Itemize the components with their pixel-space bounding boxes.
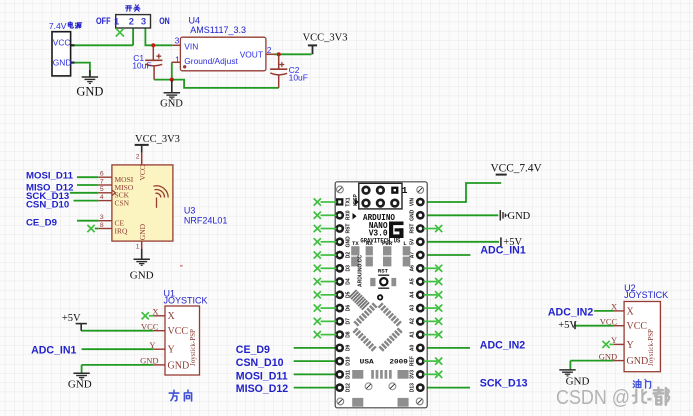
svg-text:X: X [611,302,617,312]
svg-text:ADC_IN1: ADC_IN1 [480,245,525,257]
svg-text:6: 6 [100,171,104,178]
svg-text:Y: Y [168,345,175,356]
svg-text:1: 1 [136,244,140,251]
svg-text:NRF24L01: NRF24L01 [184,215,228,225]
svg-text:D12: D12 [346,383,352,392]
svg-text:D11: D11 [346,370,352,379]
svg-text:2009: 2009 [389,358,408,365]
svg-text:A3: A3 [410,305,416,312]
svg-text:D4: D4 [346,278,352,285]
svg-text:A2: A2 [410,318,416,325]
svg-text:X: X [152,307,158,317]
svg-text:GND: GND [346,236,352,248]
svg-text:D2: D2 [346,252,352,259]
svg-text:ARDUINO.CC: ARDUINO.CC [358,255,364,287]
svg-text:D6: D6 [346,305,352,312]
svg-text:GND: GND [168,360,190,371]
svg-text:3V3: 3V3 [410,370,416,379]
svg-text:1: 1 [114,15,119,26]
svg-text:3: 3 [100,214,104,221]
svg-text:A7: A7 [410,252,416,259]
svg-text:GND: GND [160,98,183,109]
svg-text:D7: D7 [346,318,352,325]
svg-text:CE_D9: CE_D9 [26,218,57,229]
svg-text:VCC_7.4V: VCC_7.4V [491,163,543,175]
svg-text:A1: A1 [410,331,416,338]
svg-text:ADC_IN2: ADC_IN2 [548,306,593,318]
svg-text:5V: 5V [410,238,416,245]
svg-text:D3: D3 [346,265,352,272]
svg-text:VIN: VIN [184,42,198,52]
svg-text:GND: GND [53,58,72,68]
svg-text:MOSI_D11: MOSI_D11 [26,170,74,181]
svg-text:7: 7 [100,178,104,185]
svg-text:GND: GND [76,85,103,99]
svg-text:GND: GND [138,223,147,240]
svg-text:X: X [627,306,635,317]
svg-text:10uF: 10uF [132,60,151,70]
svg-text:2: 2 [136,154,140,161]
svg-text:D8: D8 [346,331,352,338]
svg-text:A0: A0 [410,344,416,351]
svg-text:SCK_D13: SCK_D13 [480,378,528,390]
svg-text:RX: RX [366,240,373,247]
svg-text:OFF: OFF [96,16,111,26]
svg-text:5: 5 [100,186,104,193]
svg-text:4: 4 [100,194,104,201]
svg-text:AMS1117_3.3: AMS1117_3.3 [190,25,246,35]
svg-text:VIN: VIN [410,197,416,206]
svg-text:PWR: PWR [382,240,393,247]
svg-text:VCC: VCC [53,37,71,47]
svg-text:GND: GND [68,379,92,391]
svg-text:RX0: RX0 [346,210,352,220]
svg-text:VCC: VCC [168,326,189,337]
svg-text:Ground/Adjust: Ground/Adjust [184,56,238,66]
svg-text:10uF: 10uF [289,72,308,82]
svg-text:JOYSTICK: JOYSTICK [164,295,208,305]
svg-text:GND: GND [599,351,617,361]
svg-text:7.4V: 7.4V [49,21,67,31]
svg-text:Y: Y [627,340,634,351]
svg-text:JOYSTICK: JOYSTICK [624,290,668,300]
svg-text:Joystick-PSP: Joystick-PSP [647,329,655,366]
svg-text:CSN_D10: CSN_D10 [236,357,284,369]
svg-text:VCC: VCC [627,321,648,332]
svg-text:USA: USA [360,358,374,365]
svg-text:VCC_3V3: VCC_3V3 [303,33,348,44]
svg-text:GND: GND [140,356,158,366]
svg-text:VCC: VCC [141,322,159,332]
svg-text:GND: GND [410,209,416,221]
svg-text:Y: Y [149,340,155,350]
svg-text:D9: D9 [346,344,352,351]
svg-text:D10: D10 [346,356,352,365]
svg-text:RST: RST [346,224,352,234]
svg-text:U3: U3 [184,205,196,215]
svg-text:CE_D9: CE_D9 [236,344,270,356]
svg-text:1: 1 [402,185,408,196]
svg-text:VCC: VCC [600,317,618,327]
svg-text:RST: RST [378,267,389,274]
svg-text:VOUT: VOUT [240,50,263,60]
svg-text:A6: A6 [410,265,416,272]
svg-text:CSN: CSN [115,199,130,208]
svg-text:GND: GND [627,356,649,367]
svg-text:ADC_IN1: ADC_IN1 [31,344,76,356]
svg-text:+5V: +5V [62,313,81,324]
svg-text:TX: TX [352,240,359,247]
svg-text:Joystick-PSP: Joystick-PSP [189,329,197,366]
svg-text:GND: GND [508,211,531,222]
svg-text:2: 2 [129,15,134,26]
svg-text:VCC_3V3: VCC_3V3 [135,134,180,145]
svg-text:D13: D13 [410,383,416,392]
svg-text:3: 3 [175,35,180,45]
svg-text:TX1: TX1 [346,197,352,206]
svg-text:CSN_D10: CSN_D10 [26,200,69,211]
svg-text:ON: ON [159,16,170,26]
svg-text:8: 8 [100,222,104,229]
svg-text:GND: GND [566,375,590,387]
svg-text:IRQ: IRQ [115,226,129,235]
svg-text:3: 3 [141,15,146,26]
svg-text:GND: GND [130,269,154,281]
svg-text:MISO_D12: MISO_D12 [236,383,289,395]
svg-text:VCC: VCC [138,165,147,180]
svg-text:A4: A4 [410,291,416,298]
svg-text:ADC_IN2: ADC_IN2 [480,339,525,351]
svg-text:REF: REF [410,356,416,366]
svg-text:X: X [168,311,176,322]
svg-text:CSDN @: CSDN @ [556,387,630,409]
svg-text:MOSI_D11: MOSI_D11 [236,371,288,383]
svg-text:2: 2 [267,45,272,55]
svg-text:RST: RST [410,224,416,234]
svg-text:1: 1 [175,55,180,65]
svg-text:A5: A5 [410,278,416,285]
